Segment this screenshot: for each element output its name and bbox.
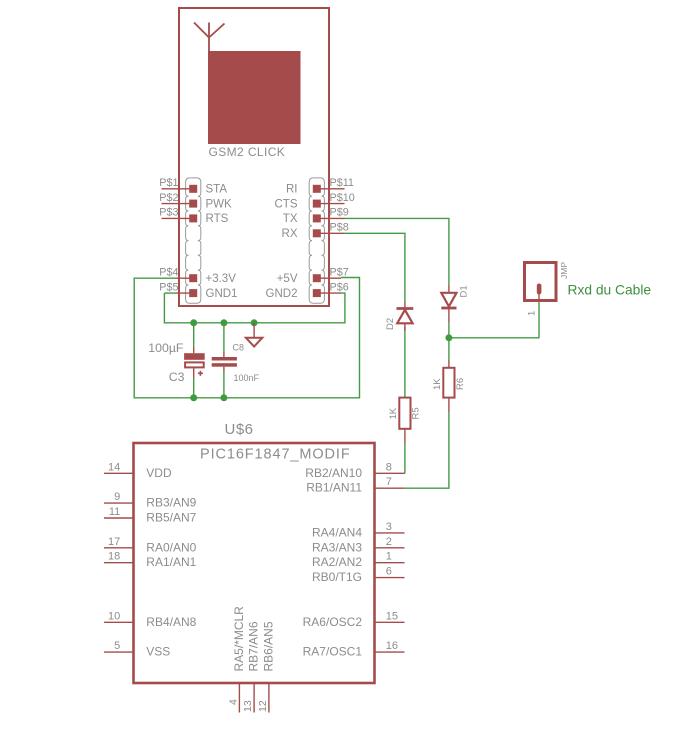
svg-text:RB2/AN10: RB2/AN10 bbox=[305, 466, 362, 480]
svg-text:STA: STA bbox=[206, 184, 228, 196]
svg-text:6: 6 bbox=[386, 566, 392, 578]
pin 12 RB6/AN5 bbox=[257, 621, 276, 712]
svg-text:RA1/AN1: RA1/AN1 bbox=[146, 555, 196, 569]
svg-text:10: 10 bbox=[108, 610, 120, 622]
svg-text:PIC16F1847_MODIF: PIC16F1847_MODIF bbox=[200, 447, 351, 463]
ground symbol bbox=[246, 323, 262, 347]
svg-text:CTS: CTS bbox=[275, 198, 298, 210]
wire R6 to pin7 bbox=[405, 412, 449, 488]
svg-text:RA2/AN2: RA2/AN2 bbox=[312, 555, 362, 569]
svg-text:VDD: VDD bbox=[146, 466, 172, 480]
pin P$10 CTS bbox=[275, 192, 355, 211]
svg-text:1K: 1K bbox=[432, 378, 443, 390]
svg-text:GND2: GND2 bbox=[266, 288, 298, 300]
svg-text:P$7: P$7 bbox=[330, 266, 349, 278]
pin 15 RA6/OSC2 bbox=[303, 610, 405, 629]
module GSM2 CLICK outline bbox=[179, 8, 329, 306]
svg-text:C8: C8 bbox=[233, 343, 245, 353]
svg-text:1: 1 bbox=[386, 551, 392, 563]
capacitor C3 bbox=[148, 323, 204, 398]
pin P$6 GND2 bbox=[266, 281, 349, 300]
svg-text:100µF: 100µF bbox=[148, 341, 184, 355]
svg-text:4: 4 bbox=[227, 699, 239, 705]
svg-text:P$6: P$6 bbox=[330, 281, 349, 293]
pin 16 RA7/OSC1 bbox=[303, 640, 405, 659]
svg-text:GND1: GND1 bbox=[206, 288, 238, 300]
pin P$1 bbox=[159, 177, 227, 196]
pin 3 RA4/AN4 bbox=[312, 521, 405, 540]
pin 1 RA2/AN2 bbox=[312, 551, 405, 570]
pin P$4 +3.3V bbox=[159, 266, 236, 285]
pin 14 VDD bbox=[104, 461, 172, 480]
svg-text:11: 11 bbox=[109, 506, 120, 518]
svg-text:2: 2 bbox=[386, 536, 392, 548]
svg-text:5: 5 bbox=[114, 640, 120, 652]
svg-text:VSS: VSS bbox=[146, 645, 170, 659]
GND rail bbox=[164, 293, 345, 323]
svg-text:U$6: U$6 bbox=[225, 421, 254, 438]
svg-text:P$3: P$3 bbox=[159, 207, 178, 219]
svg-text:P$11: P$11 bbox=[330, 177, 354, 189]
svg-text:100nF: 100nF bbox=[234, 373, 260, 383]
svg-text:P$2: P$2 bbox=[159, 192, 178, 204]
pin P$8 RX bbox=[282, 222, 349, 241]
svg-text:RB7/AN6: RB7/AN6 bbox=[247, 621, 261, 671]
wire TX net to D1 bbox=[345, 218, 449, 337]
svg-text:RB1/AN11: RB1/AN11 bbox=[306, 481, 362, 495]
svg-text:RB3/AN9: RB3/AN9 bbox=[146, 496, 196, 510]
diode D2 bbox=[385, 302, 413, 331]
junction gnd symbol bbox=[251, 319, 258, 326]
svg-text:RA6/OSC2: RA6/OSC2 bbox=[303, 615, 363, 629]
wire junction to JMP bbox=[449, 302, 539, 338]
svg-text:RB4/AN8: RB4/AN8 bbox=[146, 615, 196, 629]
connector JMP bbox=[525, 262, 652, 316]
svg-text:P$9: P$9 bbox=[330, 207, 349, 219]
svg-text:+3.3V: +3.3V bbox=[206, 273, 237, 285]
pin 10 RB4/AN8 bbox=[104, 610, 197, 629]
svg-text:RB6/AN5: RB6/AN5 bbox=[262, 621, 276, 671]
svg-text:15: 15 bbox=[386, 610, 398, 622]
svg-text:PWK: PWK bbox=[206, 198, 233, 210]
svg-text:3: 3 bbox=[386, 521, 392, 533]
pin 13 RB7/AN6 bbox=[242, 621, 261, 712]
svg-text:RA5/*MCLR: RA5/*MCLR bbox=[232, 606, 246, 672]
svg-text:R5: R5 bbox=[411, 407, 422, 419]
svg-text:7: 7 bbox=[386, 476, 392, 488]
svg-text:9: 9 bbox=[114, 491, 120, 503]
svg-text:RTS: RTS bbox=[206, 213, 229, 225]
svg-text:P$5: P$5 bbox=[159, 281, 178, 293]
pin 9 RB3/AN9 bbox=[104, 491, 197, 510]
svg-text:GSM2 CLICK: GSM2 CLICK bbox=[209, 145, 286, 159]
pin 4 RA5/*MCLR bbox=[227, 606, 246, 713]
svg-text:P$10: P$10 bbox=[330, 192, 355, 204]
svg-text:1K: 1K bbox=[388, 407, 399, 419]
pin 5 VSS bbox=[104, 640, 170, 659]
pin 18 RA1/AN1 bbox=[104, 551, 197, 570]
capacitor C8 bbox=[212, 323, 260, 398]
wire junction to R6 bbox=[448, 338, 450, 360]
svg-text:17: 17 bbox=[108, 536, 120, 548]
right pin header outline bbox=[309, 178, 324, 303]
pin 11 RB5/AN7 bbox=[104, 506, 197, 525]
junction C8 bottom bbox=[220, 394, 227, 401]
svg-text:RB0/T1G: RB0/T1G bbox=[312, 570, 362, 584]
pin 8 RB2/AN10 bbox=[305, 461, 405, 480]
svg-text:RA7/OSC1: RA7/OSC1 bbox=[303, 645, 363, 659]
junction C3 bottom bbox=[190, 394, 197, 401]
svg-text:14: 14 bbox=[108, 461, 120, 473]
svg-text:RA3/AN3: RA3/AN3 bbox=[312, 540, 362, 554]
svg-text:8: 8 bbox=[386, 461, 392, 473]
svg-text:RA0/AN0: RA0/AN0 bbox=[146, 540, 196, 554]
pin 17 RA0/AN0 bbox=[104, 536, 197, 555]
junction C8 gnd bbox=[220, 319, 227, 326]
svg-text:RX: RX bbox=[282, 228, 298, 240]
svg-text:D2: D2 bbox=[385, 318, 396, 330]
pin P$3 bbox=[159, 207, 228, 226]
IC PIC16F1847_MODIF box bbox=[134, 443, 375, 683]
wire RX net to D2 bbox=[345, 233, 405, 397]
svg-text:R6: R6 bbox=[455, 378, 466, 390]
resistor R5 bbox=[388, 398, 422, 444]
svg-text:16: 16 bbox=[386, 640, 398, 652]
antenna bbox=[194, 23, 225, 52]
svg-text:C3: C3 bbox=[169, 370, 185, 384]
pin P$11 RI bbox=[286, 177, 354, 196]
pin 6 RB0/T1G bbox=[312, 566, 405, 585]
svg-text:P$4: P$4 bbox=[159, 266, 178, 278]
svg-text:RI: RI bbox=[286, 184, 298, 196]
svg-text:Rxd du Cable: Rxd du Cable bbox=[568, 283, 652, 298]
diode D1 bbox=[441, 285, 469, 322]
svg-text:D1: D1 bbox=[459, 285, 470, 297]
svg-text:TX: TX bbox=[283, 213, 298, 225]
junction C3 gnd bbox=[190, 319, 197, 326]
svg-text:RB5/AN7: RB5/AN7 bbox=[146, 511, 196, 525]
junction node bbox=[445, 334, 452, 341]
svg-text:18: 18 bbox=[108, 551, 120, 563]
pin 7 RB1/AN11 bbox=[306, 476, 405, 495]
svg-text:13: 13 bbox=[242, 700, 254, 712]
svg-text:JMP: JMP bbox=[559, 262, 569, 279]
wire R5 to pin8 bbox=[404, 444, 406, 474]
pin P$9 TX bbox=[283, 207, 349, 226]
module body filled square bbox=[208, 51, 301, 144]
pin 2 RA3/AN3 bbox=[312, 536, 405, 555]
pin P$7 +5V bbox=[277, 266, 349, 285]
svg-text:+5V: +5V bbox=[277, 273, 298, 285]
svg-text:P$8: P$8 bbox=[330, 222, 349, 234]
svg-text:12: 12 bbox=[257, 700, 269, 712]
pin P$5 GND1 bbox=[159, 281, 237, 300]
pin P$2 bbox=[159, 192, 232, 211]
svg-text:P$1: P$1 bbox=[159, 177, 178, 189]
svg-text:1: 1 bbox=[527, 311, 538, 316]
left pin header outline bbox=[186, 178, 201, 303]
+V rail bbox=[134, 278, 359, 398]
resistor R6 bbox=[432, 360, 466, 412]
svg-text:RA4/AN4: RA4/AN4 bbox=[312, 525, 362, 539]
